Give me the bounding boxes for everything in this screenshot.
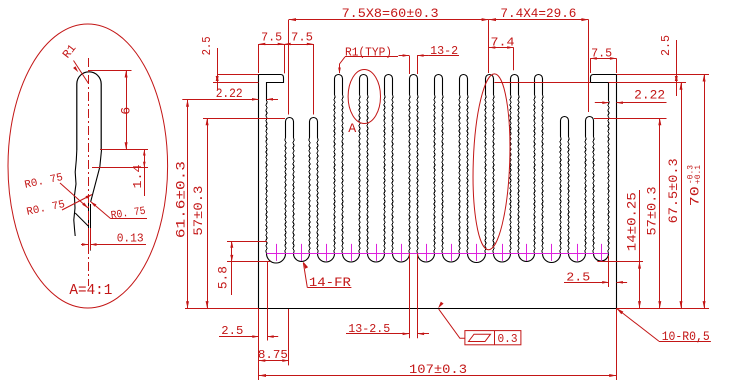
extension line part left corner [258,44,260,73]
extension line left wall inner edge [267,262,269,341]
extension line fin2 center [313,44,315,115]
slot 8 center mark [451,244,453,261]
svg-text:13-2: 13-2 [430,45,458,58]
parallelism tolerance frame 0.3 [465,331,521,345]
svg-text:7.5: 7.5 [261,32,282,45]
slot 2 center mark [301,244,303,261]
svg-text:57±0.3: 57±0.3 [192,186,206,236]
svg-text:R0. 75: R0. 75 [24,172,65,192]
slot 9 center mark [476,244,478,261]
svg-text:57±0.3: 57±0.3 [645,187,659,236]
svg-text:1.4: 1.4 [132,164,145,188]
slot 14 center mark [601,244,603,261]
svg-text:107±0.3: 107±0.3 [409,362,467,377]
slot 5 center mark [376,244,378,261]
svg-text:2.22: 2.22 [216,87,243,101]
detail fin converge line [75,213,88,226]
extension line short fin top left [203,118,285,120]
extension line last slot edge [608,256,610,287]
svg-text:R1(TYP): R1(TYP) [345,47,392,60]
svg-text:2.22: 2.22 [634,88,665,102]
detail fin left edge lower (wavy) [74,150,77,236]
slot 6 center mark [401,244,403,261]
svg-text:7.5: 7.5 [291,32,313,45]
extension line fin13 center [588,20,590,112]
svg-text:0.13: 0.13 [117,233,144,246]
svg-text:R0. 75: R0. 75 [26,199,67,219]
fin side surfaces (serrated) [266,95,609,254]
extension line base bottom left [185,308,259,310]
slot-bottom center line (magenta) [267,253,609,255]
extension line short fin top right [594,118,667,120]
extension line part left edge bottom [258,308,260,380]
slot 12 center mark [551,244,553,261]
svg-text:61.6±0.3: 61.6±0.3 [175,161,189,238]
extension line flange underside left [213,82,259,84]
extension lines fin6 tip [409,56,411,75]
extension line fin10 center [513,48,515,71]
extension line fin1 center [288,20,290,115]
heatsink extrusion part outline with 13 fins [259,75,617,309]
detail fin tip 0.13 wide [88,202,90,251]
extension line flange top level left [217,74,258,76]
svg-text:A: A [348,122,357,136]
leader from frame to base bottom [439,309,465,338]
extension line right flange underside [494,82,590,84]
detail fin right edge taper [91,150,102,202]
extension line fin1 center bottom [288,309,290,365]
extension line part right edge bottom [616,308,618,380]
extension line fin9 cap [488,20,490,73]
detail fin tip outline [77,72,101,150]
svg-text:-0.3: -0.3 [687,165,696,184]
extension line base bottom right [616,308,709,310]
svg-text:2.5: 2.5 [660,35,673,56]
svg-text:67.5±0.3: 67.5±0.3 [667,158,681,223]
detail view boundary ellipse [8,24,168,308]
svg-text:14±0.25: 14±0.25 [625,192,639,251]
extension line slot bottom right [597,261,643,263]
svg-text:13-2.5: 13-2.5 [348,323,390,336]
svg-text:A=4:1: A=4:1 [69,282,112,299]
slot 11 center mark [526,244,528,261]
extension line left flange tip [284,44,286,73]
slot 13 center mark [577,244,579,261]
slot 1 center mark [276,244,278,261]
slot 10 center mark [502,244,504,261]
slot 7 center mark [426,244,428,261]
detail center line [88,58,90,286]
large ellipse around fin9 [470,73,513,250]
svg-text:2.5: 2.5 [201,36,214,55]
slot 4 center mark [351,244,353,261]
extension lines fin6 bottom [409,254,411,339]
svg-text:7.5X8=60±0.3: 7.5X8=60±0.3 [342,6,439,21]
svg-text:R1: R1 [60,42,79,61]
detail ellipse A around fin4 [348,70,380,124]
svg-text:5.8: 5.8 [217,266,231,289]
svg-text:7.4X4=29.6: 7.4X4=29.6 [500,6,576,21]
svg-text:R0. 75: R0. 75 [110,206,146,223]
svg-text:70: 70 [688,186,703,206]
slot 3 center mark [326,244,328,261]
extension line part top-right corner [617,74,710,76]
svg-text:0.3: 0.3 [498,333,518,346]
